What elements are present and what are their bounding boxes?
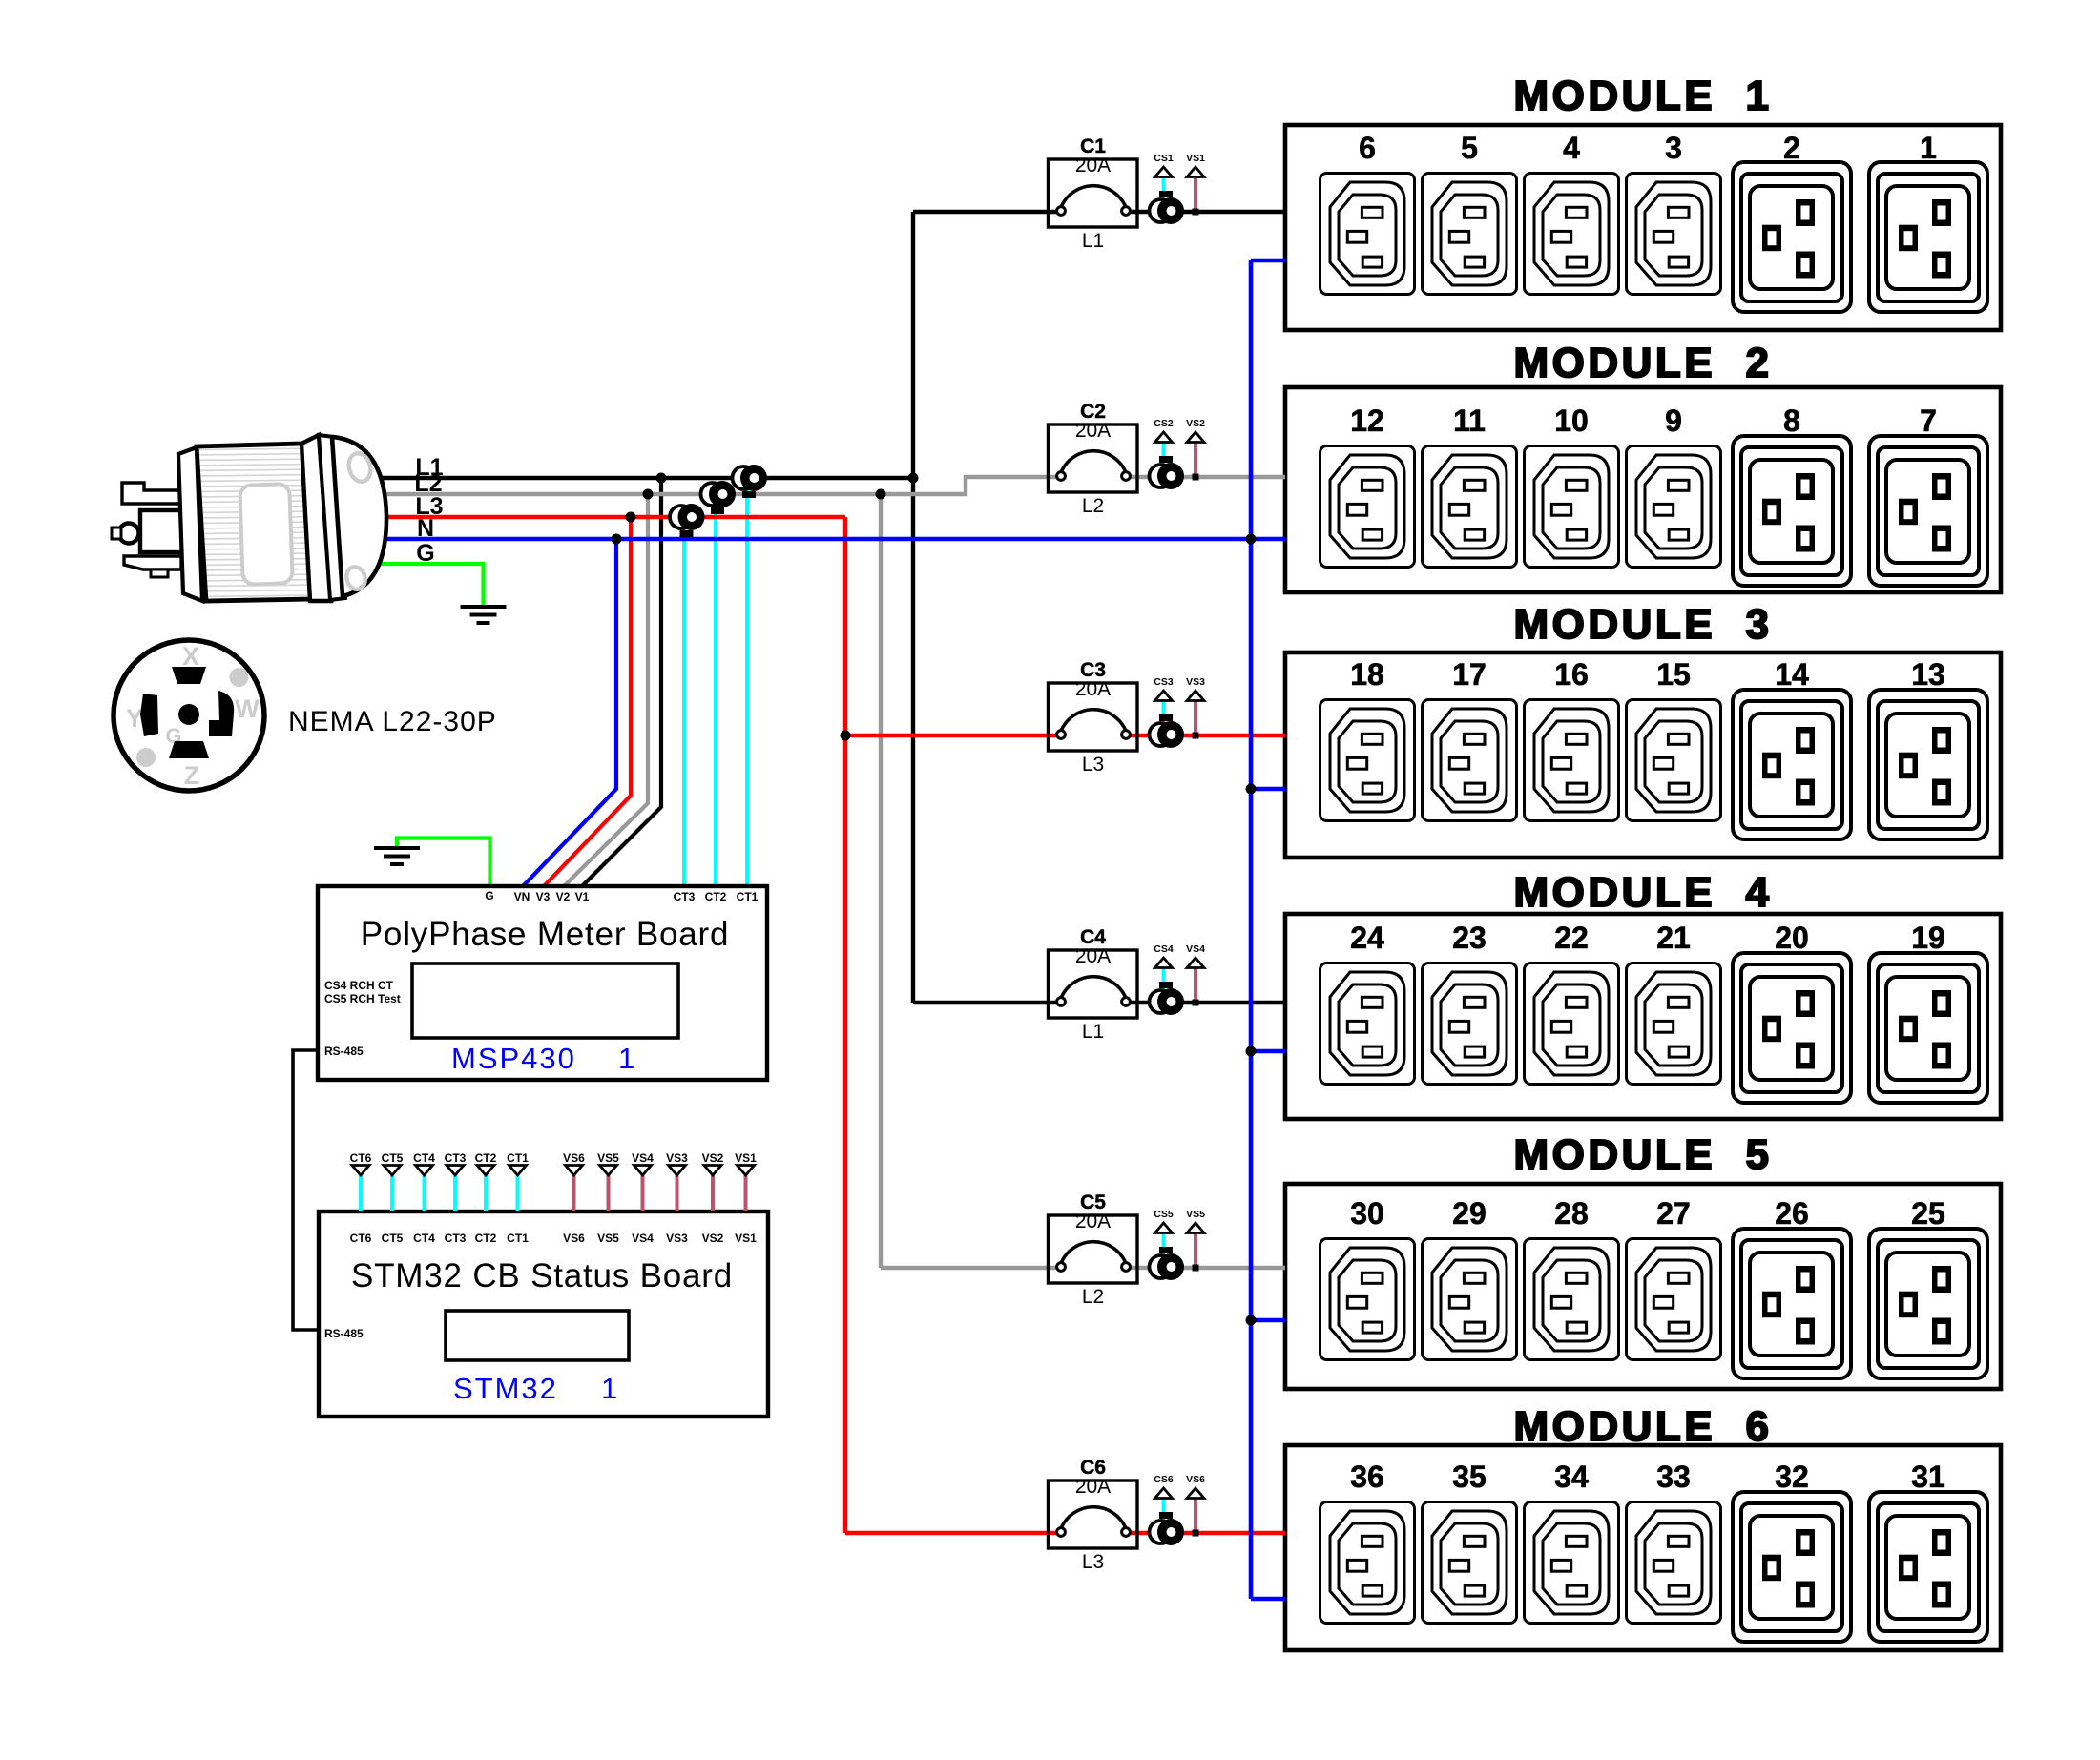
svg-text:CT3: CT3: [674, 890, 696, 903]
CS2 triangle: [1155, 432, 1173, 443]
wire L1 riser: [911, 212, 915, 1003]
outlet 22 (IEC C13): [1525, 963, 1619, 1085]
wire N to module 6: [1251, 1597, 1285, 1602]
current transformer at breaker C5: [1150, 1247, 1185, 1280]
circuit breaker C1 (L1, 20A): [1049, 135, 1138, 252]
svg-text:MSP430: MSP430: [451, 1042, 576, 1075]
CT1 input stub (cyan): [516, 1175, 520, 1211]
current sensor line CS4 (cyan): [1162, 967, 1166, 989]
junction N bus M4: [1246, 1046, 1257, 1057]
outlet 31 (IEC C19): [1869, 1492, 1987, 1642]
CS3 triangle: [1155, 691, 1173, 701]
svg-text:L3: L3: [1082, 754, 1104, 776]
circuit breaker C5 (L2, 20A): [1049, 1191, 1138, 1308]
junction L3/C3: [841, 731, 851, 741]
CS4 triangle: [1155, 958, 1173, 968]
svg-text:G: G: [485, 889, 493, 902]
svg-text:VS2: VS2: [1186, 418, 1205, 429]
module 1 box: [1285, 125, 2001, 330]
outlet 13 (IEC C19): [1869, 690, 1987, 839]
CS5 triangle: [1155, 1223, 1173, 1233]
svg-text:L1: L1: [1082, 230, 1104, 252]
pin labels CT3 CT2 CT1: [674, 890, 759, 903]
current transformer CT3 on L3: [670, 504, 705, 537]
wire N to module 3: [1251, 787, 1285, 792]
wire L1 from plug: [367, 476, 913, 480]
wire N bus riser: [1249, 260, 1254, 1599]
ground symbol (plug): [461, 607, 507, 623]
meter board outline: [318, 886, 767, 1080]
outlet 35 (IEC C13): [1423, 1502, 1517, 1624]
node VS4 on wire: [1193, 1000, 1199, 1006]
svg-text:CS4: CS4: [1154, 943, 1174, 955]
PolyPhase Meter Board U1: [318, 886, 767, 1080]
svg-text:VS1: VS1: [735, 1232, 757, 1245]
svg-text:CT4: CT4: [413, 1232, 435, 1245]
VS3 triangle: [1187, 691, 1204, 701]
current transformer at breaker C1: [1150, 191, 1185, 224]
svg-text:MODULE 6: MODULE 6: [1513, 1403, 1772, 1450]
outlet 5 (IEC C13): [1423, 174, 1517, 295]
circuit breaker C4 (L1, 20A): [1049, 926, 1138, 1043]
outlet 33 (IEC C13): [1627, 1502, 1721, 1624]
wire N to module 1: [1251, 259, 1285, 263]
svg-text:22: 22: [1554, 921, 1589, 955]
svg-text:PolyPhase Meter Board: PolyPhase Meter Board: [361, 916, 729, 953]
svg-text:Y: Y: [126, 704, 143, 733]
node VS1 on wire: [1193, 209, 1199, 216]
VS6 input triangle: [566, 1166, 583, 1176]
svg-text:CS5 RCH Test: CS5 RCH Test: [324, 992, 401, 1005]
current transformer at breaker C3: [1150, 714, 1185, 748]
VS1 input triangle: [738, 1166, 755, 1176]
outlet 34 (IEC C13): [1525, 1502, 1619, 1624]
CT4 input triangle: [416, 1166, 433, 1176]
svg-text:CT2: CT2: [475, 1232, 497, 1245]
module 2 box: [1285, 387, 2001, 592]
svg-text:7: 7: [1920, 404, 1937, 438]
svg-text:17: 17: [1452, 657, 1487, 692]
junction N bus M3: [1246, 784, 1257, 795]
wire CT3 sense (cyan): [682, 517, 686, 886]
CT3 input stub (cyan): [453, 1175, 457, 1211]
current transformer CT1 on L1: [733, 465, 768, 498]
svg-text:L1: L1: [1082, 1021, 1104, 1043]
VS5 input triangle: [600, 1166, 617, 1176]
outlet 18 (IEC C13): [1320, 700, 1415, 821]
svg-text:VS4: VS4: [1186, 943, 1205, 955]
pin labels VN V3 V2 V1: [514, 890, 590, 903]
svg-text:RS-485: RS-485: [324, 1045, 364, 1058]
svg-text:CT1: CT1: [507, 1151, 529, 1165]
wire C3 output to module 3: [1126, 734, 1285, 737]
outlet 8 (IEC C19): [1733, 436, 1851, 586]
wire N from plug: [367, 537, 1285, 542]
outlet 20 (IEC C19): [1733, 953, 1851, 1103]
module 3 box: [1285, 652, 2001, 858]
svg-text:NEMA L22-30P: NEMA L22-30P: [288, 706, 497, 737]
wire C5 output to module 5: [1126, 1266, 1285, 1270]
svg-text:MODULE 3: MODULE 3: [1513, 601, 1772, 648]
junction L1 riser: [908, 473, 919, 484]
outlet 29 (IEC C13): [1423, 1239, 1517, 1360]
svg-text:19: 19: [1911, 921, 1945, 955]
wire VN tap (blue): [523, 539, 616, 886]
outlet 30 (IEC C13): [1320, 1239, 1415, 1360]
voltage sensor line VS5 (maroon): [1194, 1232, 1197, 1268]
wire L2 riser: [879, 494, 883, 1268]
svg-text:L2: L2: [1082, 495, 1104, 517]
svg-text:VS3: VS3: [666, 1232, 688, 1245]
svg-text:VS3: VS3: [1186, 676, 1205, 688]
svg-text:21: 21: [1656, 921, 1691, 955]
VS1 triangle: [1187, 167, 1204, 177]
current sensor line CS5 (cyan): [1162, 1232, 1166, 1254]
svg-text:MODULE 2: MODULE 2: [1513, 340, 1772, 386]
svg-text:STM32: STM32: [453, 1372, 558, 1405]
svg-text:CT5: CT5: [382, 1151, 404, 1165]
svg-text:1: 1: [601, 1372, 619, 1405]
svg-text:X: X: [182, 642, 199, 671]
module 5 box: [1285, 1184, 2001, 1389]
svg-text:CT3: CT3: [445, 1232, 467, 1245]
svg-text:8: 8: [1783, 404, 1800, 438]
outlet 1 (IEC C19): [1869, 162, 1987, 312]
junction L3/V3: [626, 512, 636, 523]
CT2 input stub (cyan): [484, 1175, 488, 1211]
svg-text:MODULE 4: MODULE 4: [1513, 869, 1772, 916]
svg-text:3: 3: [1665, 131, 1682, 165]
svg-text:W: W: [235, 694, 260, 723]
wire L2 from plug: [367, 477, 1061, 494]
wire L1 to breaker C4: [913, 1001, 1061, 1004]
svg-text:C1: C1: [1080, 135, 1106, 157]
svg-text:CT5: CT5: [382, 1232, 404, 1245]
outlet 12 (IEC C13): [1320, 446, 1415, 568]
wire V2 tap (gray): [564, 494, 648, 886]
outlet 23 (IEC C13): [1423, 963, 1517, 1085]
svg-text:25: 25: [1911, 1196, 1945, 1231]
svg-text:CS4 RCH CT: CS4 RCH CT: [324, 979, 394, 992]
current sensor line CS6 (cyan): [1162, 1498, 1166, 1520]
svg-text:VS6: VS6: [563, 1151, 585, 1165]
current transformer at breaker C4: [1150, 982, 1185, 1015]
voltage sensor line VS3 (maroon): [1194, 700, 1197, 735]
svg-text:V2: V2: [556, 890, 571, 903]
svg-text:13: 13: [1911, 657, 1945, 692]
current sensor line CS1 (cyan): [1162, 176, 1166, 198]
svg-text:VS2: VS2: [702, 1151, 724, 1165]
outlet 16 (IEC C13): [1525, 700, 1619, 821]
svg-text:14: 14: [1775, 657, 1809, 692]
wire V1 tap (black): [582, 478, 661, 886]
svg-text:11: 11: [1453, 404, 1486, 438]
svg-text:1: 1: [618, 1042, 636, 1075]
CS1 triangle: [1155, 167, 1173, 177]
CT5 input stub (cyan): [390, 1175, 394, 1211]
svg-text:35: 35: [1452, 1460, 1487, 1494]
node VS3 on wire: [1193, 733, 1199, 739]
outlet 11 (IEC C13): [1423, 446, 1517, 568]
svg-text:RS-485: RS-485: [324, 1327, 364, 1340]
outlet 28 (IEC C13): [1525, 1239, 1619, 1360]
svg-text:6: 6: [1359, 131, 1376, 165]
svg-text:N: N: [417, 515, 434, 542]
VS3 input stub (maroon): [676, 1175, 679, 1211]
svg-text:V1: V1: [575, 890, 590, 903]
svg-text:Z: Z: [184, 761, 200, 790]
VS5 input stub (maroon): [607, 1175, 611, 1211]
node VS5 on wire: [1193, 1265, 1199, 1272]
CS6 triangle: [1155, 1488, 1173, 1499]
wire V3 tap (red): [544, 517, 631, 886]
voltage sensor line VS2 (maroon): [1194, 442, 1197, 477]
VS2 triangle: [1187, 432, 1204, 443]
svg-text:VS1: VS1: [735, 1151, 757, 1165]
svg-text:L3: L3: [1082, 1551, 1104, 1573]
VS2 input stub (maroon): [711, 1175, 715, 1211]
svg-text:33: 33: [1656, 1460, 1691, 1494]
svg-text:VS1: VS1: [1186, 153, 1205, 164]
pin labels VS6..VS1: [563, 1232, 757, 1245]
svg-text:VS5: VS5: [597, 1151, 619, 1165]
wire G from plug: [367, 564, 484, 605]
outlet 26 (IEC C19): [1733, 1229, 1851, 1378]
svg-text:1: 1: [1920, 131, 1937, 165]
outlet 6 (IEC C13): [1320, 174, 1415, 295]
svg-text:VS2: VS2: [702, 1232, 724, 1245]
CT5 input triangle: [384, 1166, 401, 1176]
junction L2 riser: [876, 489, 886, 500]
svg-text:VS5: VS5: [1186, 1209, 1205, 1220]
outlet 7 (IEC C19): [1869, 436, 1987, 586]
svg-text:20: 20: [1775, 921, 1809, 955]
svg-text:36: 36: [1350, 1460, 1384, 1494]
meter LCD display: [412, 963, 678, 1038]
label MSP430 1: [451, 1042, 636, 1075]
junction N bus M2: [1246, 534, 1257, 545]
VS5 triangle: [1187, 1223, 1204, 1233]
svg-text:VS6: VS6: [563, 1232, 585, 1245]
VS6 triangle: [1187, 1488, 1204, 1499]
junction L1/V1: [656, 473, 667, 484]
current sensor line CS3 (cyan): [1162, 700, 1166, 722]
svg-text:10: 10: [1554, 404, 1589, 438]
svg-text:VS6: VS6: [1186, 1474, 1205, 1485]
svg-text:27: 27: [1656, 1196, 1691, 1231]
svg-text:CS6: CS6: [1154, 1474, 1174, 1485]
svg-text:CT2: CT2: [475, 1151, 497, 1165]
svg-text:CT4: CT4: [413, 1151, 435, 1165]
current sensor line CS2 (cyan): [1162, 442, 1166, 464]
module 6 box: [1285, 1445, 2001, 1650]
VS6 input stub (maroon): [572, 1175, 576, 1211]
wire CT2 sense (cyan): [714, 494, 717, 886]
svg-text:26: 26: [1775, 1196, 1809, 1231]
svg-text:31: 31: [1911, 1460, 1945, 1494]
STM32 board outline: [319, 1211, 768, 1417]
svg-text:MODULE 1: MODULE 1: [1513, 72, 1772, 119]
svg-text:24: 24: [1350, 921, 1384, 955]
svg-text:CS3: CS3: [1154, 676, 1174, 688]
CT3 input triangle: [447, 1166, 464, 1176]
VS4 input stub (maroon): [641, 1175, 645, 1211]
current transformer at breaker C6: [1150, 1512, 1185, 1545]
wire C1 output to module 1: [1126, 210, 1285, 214]
svg-text:C4: C4: [1080, 926, 1106, 948]
svg-text:MODULE 5: MODULE 5: [1513, 1131, 1772, 1178]
wire RS-485 bus: [293, 1050, 319, 1330]
svg-text:L2: L2: [1082, 1286, 1104, 1308]
outlet 9 (IEC C13): [1627, 446, 1721, 568]
wire G meter board: [397, 839, 490, 887]
svg-text:C6: C6: [1080, 1457, 1106, 1479]
svg-text:VN: VN: [514, 890, 530, 903]
outlet 24 (IEC C13): [1320, 963, 1415, 1085]
svg-text:9: 9: [1665, 404, 1682, 438]
outlet 4 (IEC C13): [1525, 174, 1619, 295]
svg-text:VS3: VS3: [666, 1151, 688, 1165]
outlet 10 (IEC C13): [1525, 446, 1619, 568]
node VS6 on wire: [1193, 1530, 1199, 1537]
wire C4 output to module 4: [1126, 1001, 1285, 1004]
svg-text:23: 23: [1452, 921, 1487, 955]
wire L3 to breaker C3: [845, 734, 1061, 737]
svg-text:CT2: CT2: [705, 890, 727, 903]
svg-text:4: 4: [1563, 131, 1580, 165]
svg-text:32: 32: [1775, 1460, 1809, 1494]
outlet 27 (IEC C13): [1627, 1239, 1721, 1360]
VS4 triangle: [1187, 958, 1204, 968]
module 4 box: [1285, 914, 2001, 1119]
pin labels CT6..CT1: [350, 1232, 529, 1245]
NEMA L22-30P receptacle face: [114, 640, 264, 791]
CT2 input triangle: [477, 1166, 494, 1176]
outlet 14 (IEC C19): [1733, 690, 1851, 839]
svg-text:V3: V3: [536, 890, 551, 903]
svg-text:CS1: CS1: [1154, 153, 1174, 164]
svg-text:30: 30: [1350, 1196, 1384, 1231]
wire N to module 4: [1251, 1049, 1285, 1054]
outlet 36 (IEC C13): [1320, 1502, 1415, 1624]
circuit breaker C2 (L2, 20A): [1049, 401, 1138, 517]
wire N to module 5: [1251, 1318, 1285, 1323]
svg-text:VS5: VS5: [597, 1232, 619, 1245]
VS4 input triangle: [634, 1166, 652, 1176]
svg-text:CT6: CT6: [350, 1232, 372, 1245]
svg-text:CT1: CT1: [737, 890, 759, 903]
current transformer at breaker C2: [1150, 456, 1185, 489]
wire L3 from plug: [367, 515, 845, 519]
svg-text:C5: C5: [1080, 1191, 1106, 1213]
voltage sensor line VS4 (maroon): [1194, 967, 1197, 1003]
wire C6 output to module 6: [1126, 1531, 1285, 1535]
wire L1 to breaker C1: [913, 210, 1061, 214]
STM32 LCD display: [446, 1311, 629, 1360]
outlet 15 (IEC C13): [1627, 700, 1721, 821]
svg-text:16: 16: [1554, 657, 1589, 692]
voltage sensor line VS6 (maroon): [1194, 1498, 1197, 1533]
STM32 CB Status Board U2: [319, 1211, 768, 1417]
CT6 input stub (cyan): [359, 1175, 363, 1211]
svg-text:15: 15: [1656, 657, 1691, 692]
svg-text:28: 28: [1554, 1196, 1589, 1231]
svg-text:CT6: CT6: [350, 1151, 372, 1165]
ground symbol (meter board): [374, 848, 420, 864]
circuit breaker C3 (L3, 20A): [1049, 659, 1138, 776]
wire CT1 sense (cyan): [745, 478, 749, 886]
outlet 19 (IEC C19): [1869, 953, 1987, 1103]
CT1 input triangle: [509, 1166, 527, 1176]
svg-text:VS4: VS4: [632, 1151, 654, 1165]
VS2 input triangle: [704, 1166, 721, 1176]
svg-text:2: 2: [1783, 131, 1800, 165]
wire L2 to breaker C5: [881, 1266, 1061, 1270]
voltage sensor line VS1 (maroon): [1194, 176, 1197, 212]
VS1 input stub (maroon): [744, 1175, 748, 1211]
CT4 input stub (cyan): [423, 1175, 426, 1211]
circuit breaker C6 (L3, 20A): [1049, 1457, 1138, 1573]
junction N/VN: [612, 534, 622, 545]
outlet 32 (IEC C19): [1733, 1492, 1851, 1642]
outlet 21 (IEC C13): [1627, 963, 1721, 1085]
outlet 17 (IEC C13): [1423, 700, 1517, 821]
svg-text:C3: C3: [1080, 659, 1106, 681]
svg-text:5: 5: [1461, 131, 1478, 165]
wire L3 to breaker C6: [845, 1531, 1061, 1535]
svg-text:VS4: VS4: [632, 1232, 654, 1245]
svg-text:C2: C2: [1080, 401, 1106, 423]
svg-text:CT3: CT3: [445, 1151, 467, 1165]
VS3 input triangle: [669, 1166, 686, 1176]
outlet 3 (IEC C13): [1627, 174, 1721, 295]
svg-text:CS2: CS2: [1154, 418, 1174, 429]
svg-text:12: 12: [1350, 404, 1384, 438]
node VS2 on wire: [1193, 474, 1199, 481]
svg-text:34: 34: [1554, 1460, 1589, 1494]
CT6 input triangle: [352, 1166, 369, 1176]
outlet 25 (IEC C19): [1869, 1229, 1987, 1378]
outlet 2 (IEC C19): [1733, 162, 1851, 312]
svg-text:STM32 CB Status Board: STM32 CB Status Board: [351, 1257, 733, 1294]
label STM32 1: [453, 1372, 619, 1405]
NEMA L22-30P plug P1: [112, 435, 386, 602]
svg-text:29: 29: [1452, 1196, 1487, 1231]
svg-text:CT1: CT1: [507, 1232, 529, 1245]
current transformer CT2 on L2: [701, 481, 737, 514]
junction N bus M5: [1246, 1315, 1257, 1326]
wire C2 output to module 2: [1126, 475, 1285, 479]
svg-text:18: 18: [1350, 657, 1384, 692]
svg-text:G: G: [416, 540, 434, 567]
svg-text:CS5: CS5: [1154, 1209, 1174, 1220]
junction L2/V2: [643, 489, 654, 500]
wire L3 riser: [843, 517, 847, 1533]
